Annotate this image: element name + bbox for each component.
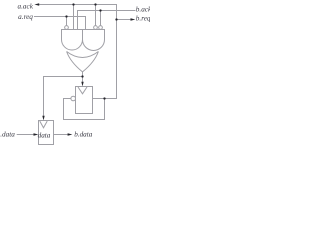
svg-text:a.req: a.req <box>18 13 33 21</box>
svg-text:b.ack: b.ack <box>136 6 150 14</box>
svg-text:data: data <box>38 132 51 140</box>
svg-text:a.ack: a.ack <box>18 2 34 10</box>
svg-text:b.req: b.req <box>136 14 150 22</box>
svg-text:a.data: a.data <box>0 130 15 138</box>
svg-text:b.data: b.data <box>74 131 93 139</box>
